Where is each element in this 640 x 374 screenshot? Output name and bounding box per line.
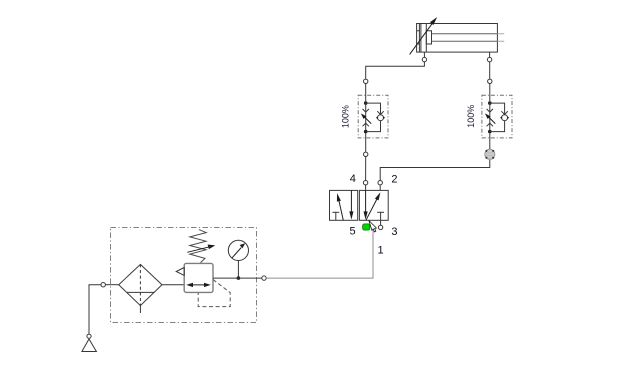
valve V1 left box arrow down (349, 190, 353, 219)
node port 4 (363, 181, 367, 185)
node flow valve D1 top (364, 79, 368, 83)
wire (213, 277, 262, 279)
flow control valve D1 (361, 84, 385, 134)
spring of regulator (187, 230, 215, 263)
valve V1 body left box (330, 190, 358, 220)
svg-text:2: 2 (391, 173, 397, 185)
node port 3 (378, 225, 382, 229)
valve V1 left box arrow up (337, 193, 343, 220)
valve V1 port 2 stem (379, 185, 381, 191)
cushioning adjust arrow (410, 17, 438, 54)
wire (365, 157, 367, 181)
node flow valve D1 bottom (364, 152, 368, 156)
wire (366, 62, 425, 79)
svg-text:3: 3 (391, 226, 397, 238)
flow control valve D2 enclosure (482, 95, 512, 138)
wire (489, 62, 491, 79)
service unit enclosure Z1 (111, 228, 257, 323)
wire (380, 160, 490, 181)
valve V1 body right box (359, 190, 388, 220)
cylinder port stems (424, 52, 489, 57)
node cylinder right port (487, 57, 491, 61)
node port 2 (378, 181, 382, 185)
node cylinder left port (422, 57, 426, 61)
svg-text:100%: 100% (340, 105, 350, 128)
svg-text:100%: 100% (466, 105, 476, 128)
mouse cursor (369, 221, 377, 232)
flow control valve D1 enclosure (358, 95, 388, 138)
wire (162, 284, 184, 286)
wire (489, 133, 491, 149)
pressure regulator R1 (176, 263, 230, 306)
valve V1 right box arrow up (366, 192, 381, 220)
node service unit outlet (262, 276, 266, 280)
compressed air supply P1 (82, 334, 97, 351)
node inlet (101, 283, 105, 287)
wire (89, 285, 101, 334)
node flow valve D2 top (488, 79, 492, 83)
svg-text:4: 4 (350, 173, 356, 185)
wire (365, 133, 367, 152)
wire in progress (gray) (266, 230, 373, 278)
wire (105, 284, 118, 286)
plug node (gray) (485, 149, 495, 159)
filter F1 (119, 264, 162, 313)
pressure gauge G1 (228, 240, 248, 278)
valve V1 port 5 tee (332, 212, 339, 220)
svg-text:5: 5 (349, 226, 355, 238)
valve V1 right box arrow down (364, 190, 368, 219)
green highlighted connection port 1 (363, 224, 370, 230)
valve V1 port 3 tee (377, 212, 384, 225)
valve V1 port 4 stem (365, 185, 367, 191)
flow control valve D2 (485, 84, 509, 134)
svg-text:1: 1 (377, 245, 383, 257)
junction (237, 276, 241, 280)
cylinder C1 (417, 24, 505, 53)
